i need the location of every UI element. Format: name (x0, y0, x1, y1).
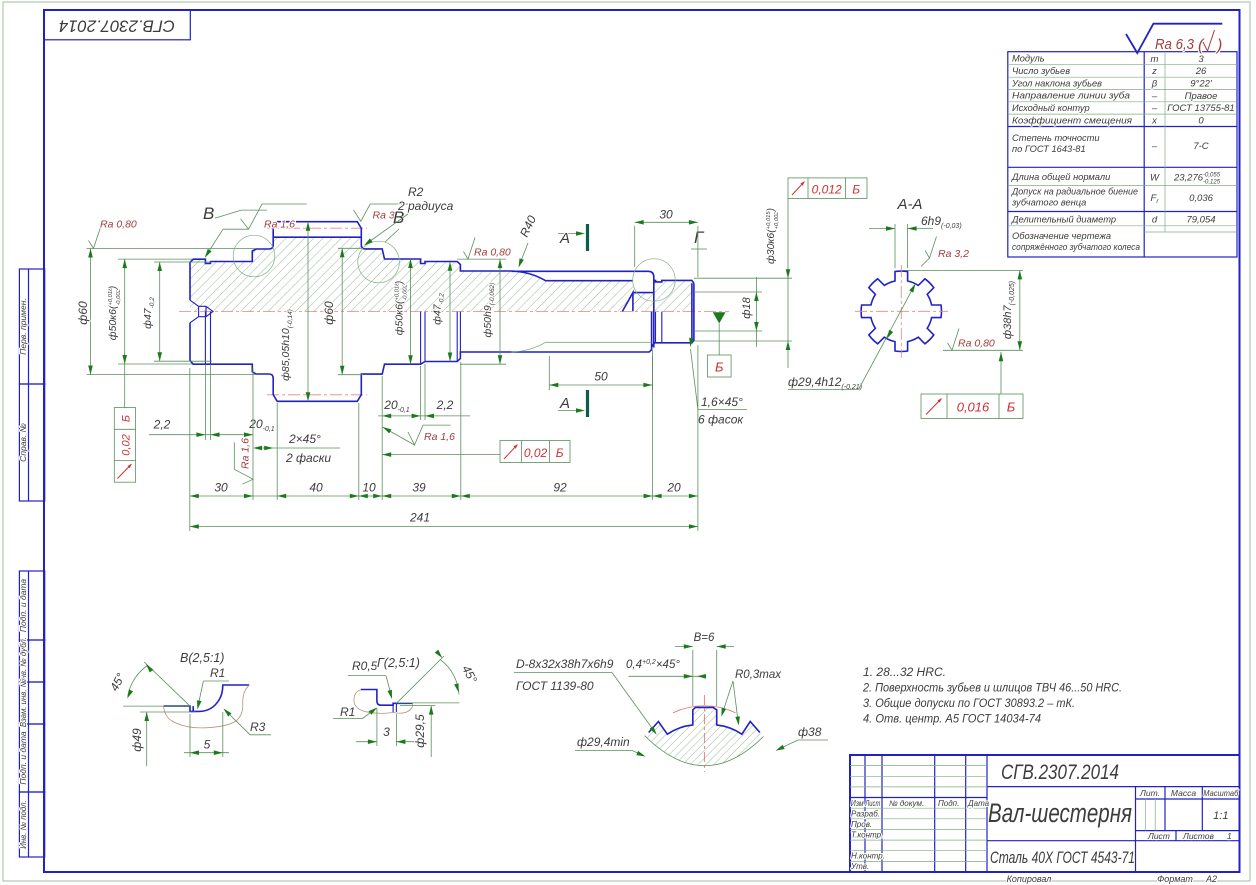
detail B break line (164, 685, 250, 728)
detail G 45 degree dimension (396, 656, 459, 703)
shaft bottom profile outline (190, 323, 694, 402)
svg-text:–: – (1151, 91, 1158, 102)
svg-text:1. 28...32 HRC.: 1. 28...32 HRC. (863, 667, 946, 679)
spline shaft cross section (861, 271, 941, 351)
svg-text:Листов: Листов (1182, 831, 1215, 841)
svg-text:СГВ.2307.2014: СГВ.2307.2014 (1001, 761, 1119, 784)
svg-text:R1: R1 (340, 705, 355, 719)
svg-text:7-C: 7-C (1193, 141, 1208, 152)
detail B 2.5:1 (107, 651, 271, 766)
dimension d29,4h12 (788, 283, 918, 391)
label R2 2 radiusa (363, 185, 454, 247)
spline detail bottom break arc (645, 736, 764, 766)
svg-text:0,012: 0,012 (812, 183, 842, 197)
datum B triangle (707, 312, 731, 377)
svg-text:В: В (203, 204, 214, 223)
detail G break line (354, 690, 413, 714)
svg-text:Ra 0,80: Ra 0,80 (100, 219, 137, 231)
section centerlines (855, 310, 948, 312)
svg-text:Подп. и дата: Подп. и дата (18, 579, 28, 632)
svg-text:Инв. № дубл.: Инв. № дубл. (19, 637, 28, 685)
svg-text:№ докум.: № докум. (889, 799, 924, 808)
left margin column: Инв. № подл. box (19, 792, 44, 857)
svg-text:Б: Б (715, 360, 724, 375)
spline outer diameter line (511, 271, 653, 292)
svg-text:Вал-шестерня: Вал-шестерня (988, 798, 1132, 828)
dimension 20-0,1 and 2,2 right (378, 364, 470, 420)
dimension d47 left (154, 262, 212, 361)
svg-text:Т.контр.: Т.контр. (851, 831, 883, 840)
surface finish Ra 0,80 d50h9 (464, 238, 511, 260)
detail G 2.5:1 (333, 650, 480, 757)
svg-text:А: А (559, 230, 570, 247)
svg-text:2. Поверхность зубьев и шлицо: 2. Поверхность зубьев и шлицов ТВЧ 46...… (862, 683, 1122, 695)
dimension 20-0,1 and 2,2 left (149, 364, 275, 440)
svg-text:В(2,5:1): В(2,5:1) (180, 651, 224, 665)
svg-text:А: А (559, 395, 570, 412)
surface finish Ra 3,2 section (921, 237, 937, 267)
hatching journal right end (633, 280, 694, 311)
svg-text:Б: Б (1007, 400, 1016, 415)
svg-text:R3: R3 (250, 720, 266, 734)
svg-text:β: β (1151, 79, 1158, 90)
svg-text:Копировал: Копировал (1007, 874, 1052, 884)
svg-text:Направление линии зуба: Направление линии зуба (1012, 91, 1130, 101)
svg-text:d: d (1152, 215, 1158, 226)
svg-text:А2: А2 (1205, 874, 1217, 884)
svg-text:Лист: Лист (1147, 831, 1170, 841)
svg-text:3: 3 (383, 725, 390, 739)
svg-text:0: 0 (1198, 116, 1204, 127)
svg-text:А-А: А-А (896, 196, 922, 213)
hatching upper half section (190, 237, 633, 311)
shaft top profile outline (190, 222, 511, 301)
svg-text:ф29,4min: ф29,4min (577, 735, 630, 749)
dimension 50 spline length (549, 356, 652, 390)
svg-text:Формат: Формат (1157, 874, 1193, 884)
left margin column: Инв. № дубл. box (19, 640, 44, 682)
label R40 (516, 213, 539, 268)
centerline axis (179, 311, 729, 313)
svg-text:Число зубьев: Число зубьев (1012, 66, 1070, 76)
svg-text:Разраб.: Разраб. (851, 810, 880, 819)
step edge lines bottom half d47 to spline blank (457, 312, 460, 362)
svg-text:Лист: Лист (865, 799, 881, 808)
svg-text:Правое: Правое (1185, 91, 1218, 102)
dimension d38h7 (903, 270, 1023, 350)
spline detail hatch (645, 707, 764, 765)
svg-text:241: 241 (409, 511, 430, 525)
svg-text:5: 5 (204, 738, 211, 752)
label 2x45 2 chamfers (253, 432, 340, 465)
surface finish Ra 1,6 rotated groove (234, 438, 253, 484)
detail G d29,5 dimension (400, 706, 435, 757)
svg-text:ф38: ф38 (798, 725, 822, 739)
dimension d60 middle (338, 248, 363, 374)
svg-text:B=6: B=6 (694, 632, 715, 644)
dimension d50k6 left (118, 259, 192, 408)
dimension d50h9 (457, 259, 506, 364)
svg-text:Изм: Изм (851, 799, 864, 808)
svg-text:Ra 1,6: Ra 1,6 (240, 438, 252, 469)
tolerance frame 0,02 B middle (382, 441, 570, 463)
svg-text:26: 26 (1195, 66, 1207, 77)
svg-text:50: 50 (594, 370, 608, 384)
svg-text:Степень точности: Степень точности (1012, 133, 1100, 143)
svg-text:Б: Б (556, 446, 564, 460)
center hole left end (190, 300, 213, 323)
left diameter dimensions (76, 249, 257, 483)
detail B width 5 dimension (184, 712, 229, 757)
svg-text:6 фасок: 6 фасок (698, 413, 744, 427)
detail B 45 degree dimension (123, 662, 190, 706)
technical notes (862, 667, 1122, 726)
svg-text:Ra 0,80: Ra 0,80 (474, 247, 511, 259)
gear parameters table top right (1008, 52, 1237, 257)
svg-text:ф60: ф60 (76, 301, 90, 325)
svg-text:Масса: Масса (1171, 788, 1196, 798)
svg-text:40: 40 (309, 481, 323, 495)
svg-text:): ) (1215, 37, 1222, 54)
svg-text:Делительный диаметр: Делительный диаметр (1011, 214, 1116, 224)
svg-text:R1: R1 (210, 666, 225, 680)
dimension 30 top (635, 208, 698, 278)
svg-text:m: m (1151, 54, 1159, 65)
svg-text:0,016: 0,016 (957, 400, 990, 415)
svg-text:Длина общей нормали: Длина общей нормали (1011, 172, 1110, 182)
svg-text:Г(2,5:1): Г(2,5:1) (377, 656, 420, 670)
right diameter dimensions (394, 259, 507, 364)
svg-text:сопряжённого зубчатого колеса: сопряжённого зубчатого колеса (1012, 242, 1140, 252)
svg-text:Подп. и дата: Подп. и дата (18, 731, 28, 784)
surface finish Ra 0,80 left (89, 219, 137, 249)
dimension d50k6 right (410, 259, 412, 364)
spline profile detail (514, 632, 828, 772)
svg-text:0,036: 0,036 (1189, 193, 1213, 204)
svg-text:–: – (1151, 141, 1158, 152)
detail G groove profile (361, 690, 413, 706)
svg-text:1: 1 (1227, 831, 1232, 841)
svg-text:Лит.: Лит. (1139, 788, 1160, 798)
svg-text:ГОСТ 1139-80: ГОСТ 1139-80 (516, 679, 594, 693)
surface finish Ra 3,2 gear (354, 204, 409, 222)
section A-A (788, 196, 1023, 419)
detail mark G circle (633, 259, 676, 302)
svg-text:10: 10 (362, 481, 376, 495)
svg-text:СГВ.2307.2014: СГВ.2307.2014 (59, 17, 175, 36)
gear pitch line top (267, 227, 367, 229)
svg-text:R2: R2 (408, 185, 424, 199)
svg-text:ф60: ф60 (322, 301, 336, 325)
svg-text:Коэффициент смещения: Коэффициент смещения (1012, 115, 1132, 125)
svg-text:по ГОСТ 1643-81: по ГОСТ 1643-81 (1012, 144, 1086, 154)
surface finish Ra 1,6 right seat (381, 425, 455, 445)
groove side lines bottom half right (421, 312, 425, 365)
svg-text:R0,3max: R0,3max (735, 669, 782, 681)
svg-text:30: 30 (214, 481, 228, 495)
svg-text:Н.контр.: Н.контр. (851, 852, 885, 861)
spline root thin line bottom (exterior) (511, 342, 651, 352)
svg-text:z: z (1151, 66, 1157, 77)
svg-text:4. Отв. центр. А5 ГОСТ 14034-: 4. Отв. центр. А5 ГОСТ 14034-74 (863, 714, 1041, 726)
svg-text:ф29,5: ф29,5 (413, 714, 427, 748)
dimension 6h9 (869, 224, 933, 268)
svg-text:Перв. примен.: Перв. примен. (18, 298, 28, 355)
svg-text:30: 30 (659, 208, 673, 222)
tolerance frame 0,016 B (921, 352, 1023, 419)
svg-text:Модуль: Модуль (1012, 54, 1045, 64)
dimension d85.05h10 (307, 222, 309, 402)
svg-text:20: 20 (666, 481, 681, 495)
detail B R1 leader (203, 680, 229, 682)
dimension d18 (694, 277, 762, 347)
title block (850, 755, 1240, 884)
svg-text:Сталь 40Х ГОСТ 4543-71: Сталь 40Х ГОСТ 4543-71 (990, 848, 1135, 867)
tolerance frame 0,02 B left vertical (114, 408, 135, 483)
dimension d47 right (449, 262, 451, 362)
svg-text:Инв. № подл.: Инв. № подл. (19, 800, 28, 848)
svg-text:зубчатого венца: зубчатого венца (1011, 198, 1086, 208)
groove side lines bottom half left (205, 312, 210, 365)
svg-text:–: – (1151, 103, 1158, 114)
svg-text:R0,5: R0,5 (352, 659, 378, 673)
svg-text:Справ. №: Справ. № (18, 423, 28, 462)
detail G width 3 dimension (356, 708, 417, 746)
svg-text:Угол наклона зубьев: Угол наклона зубьев (1011, 78, 1102, 88)
gear pitch line bottom (267, 394, 367, 396)
svg-text:Ra 3,2: Ra 3,2 (938, 248, 969, 260)
label 1,6x45 6 chamfers (688, 338, 747, 427)
surface finish Ra 0,80 section (948, 329, 960, 351)
section plane A lower (558, 390, 588, 417)
svg-text:D-8x32x38h7x6h9: D-8x32x38h7x6h9 (516, 657, 614, 671)
left margin column: Справ. № box (19, 384, 44, 501)
bottom chained dimensions (190, 345, 698, 531)
svg-text:3. Общие допуски по ГОСТ 3089: 3. Общие допуски по ГОСТ 30893.2 – тК. (863, 698, 1075, 710)
spline cutter runout R40 (511, 271, 633, 281)
detail B d49 dimension (140, 712, 196, 766)
left margin column: Подп. и дата box 1 (19, 571, 44, 640)
svg-text:Ra 1,6: Ra 1,6 (424, 431, 455, 443)
top-left rotated designation box (44, 10, 190, 40)
svg-text:Ra 6,3: Ra 6,3 (1155, 36, 1195, 53)
section plane A upper (558, 224, 588, 251)
detail mark B left circle (233, 235, 275, 277)
detail mark B right circle (358, 241, 400, 283)
gear dimensions (280, 222, 363, 402)
svg-text:Подп.: Подп. (938, 799, 959, 808)
svg-text:Б: Б (121, 415, 133, 422)
dimension d60 left (87, 249, 258, 375)
left margin column: Подп. и дата box 2 (19, 724, 44, 792)
svg-text:ГОСТ 13755-81: ГОСТ 13755-81 (1167, 103, 1234, 114)
svg-text:Обозначение чертежа: Обозначение чертежа (1012, 231, 1111, 241)
svg-text:1:1: 1:1 (1213, 810, 1228, 822)
svg-text:92: 92 (553, 481, 567, 495)
svg-text:2×45°: 2×45° (288, 432, 321, 446)
svg-text:0,02: 0,02 (121, 434, 133, 455)
svg-text:2,2: 2,2 (153, 418, 171, 432)
journal shoulder face bottom (652, 293, 654, 348)
spline detail max material red arc (673, 706, 736, 713)
tolerance frame 0,012 B (788, 178, 867, 199)
svg-text:ф18: ф18 (741, 296, 753, 318)
main view: shaft-gear longitudinal section (179, 222, 729, 402)
spline detail tooth profile (649, 707, 760, 734)
svg-text:1,6×45°: 1,6×45° (701, 395, 743, 409)
journal groove side lines bottom (656, 312, 662, 343)
svg-text:Пров.: Пров. (851, 820, 872, 829)
svg-text:9°22': 9°22' (1190, 79, 1213, 90)
left margin column: Перв. примен. box (19, 269, 44, 857)
local section break lines (622, 293, 653, 312)
svg-text:Б: Б (852, 183, 860, 197)
svg-text:Утв.: Утв. (850, 862, 869, 871)
left margin column: Взам. инв. № box (19, 682, 44, 724)
end face lines (692, 283, 694, 340)
svg-text:Исходный контур: Исходный контур (1012, 103, 1090, 113)
svg-text:Дата: Дата (967, 799, 990, 808)
general roughness symbol Ra 6,3 (1126, 24, 1222, 54)
svg-text:Ra 1,6: Ra 1,6 (264, 219, 295, 231)
svg-text:2,2: 2,2 (436, 398, 454, 412)
svg-text:W: W (1150, 173, 1160, 184)
dimension d30k6 (694, 199, 792, 369)
detail G R0,5 leader (348, 675, 386, 677)
journal top edge with groove notch (654, 280, 694, 283)
svg-text:Взам. инв. №: Взам. инв. № (19, 679, 28, 727)
dimension B=6 (675, 647, 734, 707)
svg-text:39: 39 (412, 481, 426, 495)
svg-text:3: 3 (1198, 54, 1204, 65)
surface finish Ra 1,6 top (203, 204, 307, 259)
svg-text:Допуск на радиальное биение: Допуск на радиальное биение (1011, 187, 1138, 197)
svg-text:Масштаб: Масштаб (1203, 788, 1239, 798)
svg-text:ф49: ф49 (130, 728, 144, 752)
gear tooth root line (273, 236, 361, 238)
svg-text:2 фаски: 2 фаски (285, 451, 331, 465)
detail B groove profile (164, 685, 250, 711)
spline detail center line (703, 695, 705, 772)
svg-text:Ra 0,80: Ra 0,80 (958, 338, 995, 350)
svg-text:0,02: 0,02 (524, 446, 548, 460)
svg-text:79,054: 79,054 (1186, 215, 1215, 226)
svg-text:2 радиуса: 2 радиуса (397, 199, 454, 213)
